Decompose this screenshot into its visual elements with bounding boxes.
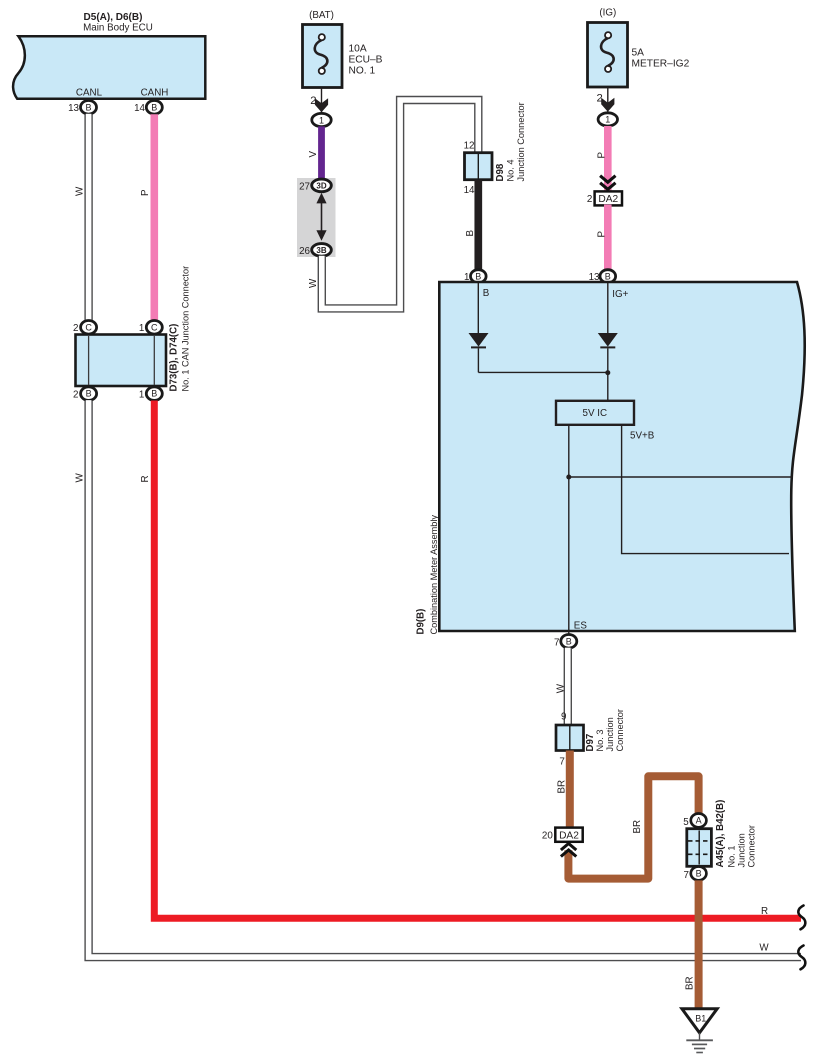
fuse 5A METER-IG2 (IG): [588, 8, 690, 88]
svg-text:B: B: [696, 869, 702, 879]
shielded link box 3D/3B: [297, 178, 336, 257]
svg-text:DA2: DA2: [559, 830, 579, 841]
meter pin 1 (B): [464, 270, 486, 284]
svg-text:20: 20: [542, 831, 553, 842]
pin 13 (B) of Main Body ECU: [68, 101, 96, 115]
svg-text:BR: BR: [556, 780, 567, 794]
pin 14 (B) of Main Body ECU: [134, 101, 162, 115]
wire joining diodes: [478, 371, 607, 373]
svg-text:7: 7: [684, 870, 689, 881]
chevron out of DA2: [561, 844, 576, 857]
svg-text:METER–IG2: METER–IG2: [632, 59, 690, 70]
node B inside meter: [478, 283, 490, 333]
junction dot on ES net: [566, 475, 571, 480]
svg-text:26: 26: [299, 246, 310, 257]
svg-text:7: 7: [559, 757, 564, 768]
svg-text:P: P: [140, 189, 151, 196]
svg-text:D5(A), D6(B): D5(A), D6(B): [84, 12, 143, 23]
D73 pin 1 (B): [139, 387, 162, 401]
connector DA2 pin 2: [587, 191, 622, 205]
junction dot at diode join: [605, 370, 610, 375]
svg-text:B: B: [465, 230, 476, 237]
svg-text:14: 14: [134, 103, 145, 114]
fuse output pin 2 and node 1: [597, 87, 618, 126]
D73 pin 2 (C): [73, 321, 97, 335]
svg-text:5: 5: [683, 817, 689, 828]
svg-text:W: W: [75, 473, 86, 483]
Combination Meter Assembly D9(B): [416, 282, 805, 635]
svg-text:14: 14: [464, 185, 475, 196]
svg-text:1: 1: [319, 115, 324, 125]
svg-text:(BAT): (BAT): [309, 10, 334, 21]
svg-text:ES: ES: [574, 621, 588, 632]
svg-text:CANL: CANL: [76, 88, 103, 99]
5V IC block: [556, 401, 634, 425]
svg-text:DA2: DA2: [598, 194, 618, 205]
break symbol on wire R right edge: [798, 906, 805, 930]
svg-text:No. 1: No. 1: [727, 846, 737, 868]
No. 1 CAN junction connector D73(B), D74(C): [76, 266, 191, 392]
fuse output pin 2 and node 1: [310, 88, 331, 127]
ground B1: [682, 1009, 717, 1053]
meter pin 13 (B): [589, 270, 616, 284]
svg-text:5V IC: 5V IC: [583, 408, 608, 419]
svg-text:IG+: IG+: [612, 289, 628, 300]
svg-text:C: C: [151, 322, 158, 332]
wire B from D98 pin 14 to meter pin 1: [465, 180, 479, 270]
svg-text:Junction Connector: Junction Connector: [516, 102, 526, 181]
svg-text:B: B: [151, 102, 157, 112]
svg-text:No. 1 CAN Junction Connector: No. 1 CAN Junction Connector: [181, 266, 191, 392]
wire W from D73 pin 2(B) to right edge (bottom): [75, 400, 802, 957]
A45 pin 5 (A): [683, 814, 706, 828]
svg-text:BR: BR: [632, 820, 643, 834]
svg-text:Main Body ECU: Main Body ECU: [83, 23, 153, 34]
svg-text:1: 1: [139, 323, 144, 334]
svg-text:(IG): (IG): [599, 8, 616, 19]
svg-text:10A: 10A: [349, 44, 367, 55]
A45 pin 7 (B): [684, 867, 707, 881]
svg-text:B: B: [483, 288, 490, 299]
svg-text:B: B: [566, 636, 572, 646]
meter pin 7 (B) ES output: [554, 635, 577, 649]
svg-text:No. 4: No. 4: [506, 160, 516, 182]
svg-text:W: W: [308, 278, 319, 288]
node IG+ inside meter: [608, 283, 629, 333]
svg-text:5V+B: 5V+B: [630, 431, 655, 442]
svg-text:Junction: Junction: [737, 833, 747, 867]
No. 1 junction connector A45(A), B42(B): [687, 800, 757, 868]
svg-text:27: 27: [299, 181, 310, 192]
net 5V+B: [622, 425, 789, 554]
svg-text:CANH: CANH: [141, 88, 169, 99]
No. 3 junction connector D97: [556, 709, 625, 767]
svg-text:13: 13: [68, 103, 79, 114]
svg-text:ECU–B: ECU–B: [349, 55, 383, 66]
svg-text:Connector: Connector: [747, 825, 757, 867]
fuse 10A ECU-B NO. 1 (BAT): [303, 10, 383, 88]
net ES vertical: [569, 425, 588, 635]
connector DA2 pin 20: [542, 828, 583, 842]
svg-text:B: B: [85, 102, 91, 112]
diode D2 (IG+ input): [598, 333, 618, 401]
svg-text:2: 2: [73, 389, 78, 400]
svg-text:C: C: [85, 322, 92, 332]
wire P from CANH pin 14 to D73 pin 1(C): [140, 114, 155, 320]
Main Body ECU D5(A), D6(B): [13, 12, 205, 99]
svg-text:B: B: [605, 271, 611, 281]
chevron into DA2: [600, 176, 615, 190]
svg-text:V: V: [308, 151, 319, 158]
svg-text:D98: D98: [495, 163, 506, 181]
svg-text:B: B: [475, 271, 481, 281]
svg-text:R: R: [761, 906, 768, 917]
svg-text:W: W: [556, 683, 567, 693]
svg-text:Combination Meter Assembly: Combination Meter Assembly: [429, 515, 439, 635]
D73 pin 1 (C): [139, 321, 162, 335]
svg-text:D73(B), D74(C): D73(B), D74(C): [169, 324, 180, 392]
svg-text:B: B: [151, 389, 157, 399]
D73 pin 2 (B): [73, 387, 97, 401]
wire BR from DA2 to A45 pin 5: [568, 776, 698, 878]
svg-text:12: 12: [464, 141, 475, 152]
svg-text:2: 2: [587, 194, 592, 205]
wire W from CANL pin 13 to D73 pin 2(C): [75, 114, 89, 321]
wire BR from A45 pin 7 to ground B1: [685, 880, 699, 1009]
svg-text:W: W: [75, 186, 86, 196]
wire BR from D97 pin 7 to DA2 pin 20: [556, 751, 570, 829]
wire P from DA2 to meter pin 13: [597, 205, 608, 271]
svg-text:Junction: Junction: [605, 717, 615, 751]
svg-text:2: 2: [73, 323, 78, 334]
svg-text:3D: 3D: [316, 181, 326, 190]
svg-text:P: P: [597, 152, 608, 159]
svg-text:1: 1: [605, 115, 610, 125]
svg-text:A: A: [696, 816, 702, 826]
svg-text:1: 1: [139, 389, 144, 400]
svg-text:9: 9: [561, 712, 566, 723]
svg-text:A45(A), B42(B): A45(A), B42(B): [715, 800, 726, 868]
No. 4 junction connector D98: [464, 102, 526, 195]
wire R from D73 pin 1(B) to right edge: [140, 401, 801, 919]
svg-text:B: B: [86, 389, 92, 399]
svg-text:BR: BR: [685, 976, 696, 990]
svg-text:W: W: [759, 943, 769, 954]
connector 3B pin 26: [299, 244, 331, 257]
svg-text:R: R: [140, 475, 151, 482]
svg-text:Connector: Connector: [615, 709, 625, 751]
svg-text:No. 3: No. 3: [595, 730, 605, 752]
svg-text:5A: 5A: [632, 48, 645, 59]
svg-text:P: P: [597, 231, 608, 238]
svg-text:7: 7: [554, 637, 559, 648]
wire V from fuse node 1 to 3D: [308, 126, 322, 179]
wire W from meter pin 7 to D97 pin 9: [556, 648, 568, 726]
diode D1 (B input): [469, 333, 489, 372]
wire W from 3B to D98 pin 12: [308, 100, 479, 308]
svg-text:3B: 3B: [316, 246, 326, 255]
break symbol on wire W right edge: [798, 946, 805, 970]
connector 3D pin 27: [299, 179, 331, 192]
svg-text:NO. 1: NO. 1: [349, 66, 376, 77]
wire P from fuse node 1 to DA2: [597, 126, 608, 192]
branch wire to right edge: [569, 476, 793, 478]
svg-text:D9(B): D9(B): [416, 609, 427, 635]
svg-text:B1: B1: [695, 1014, 706, 1024]
